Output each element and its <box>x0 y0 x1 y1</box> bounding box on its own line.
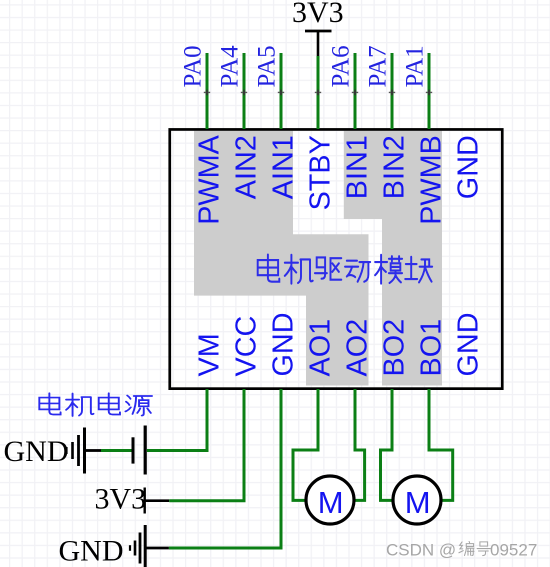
power flag 3V3 top <box>305 31 332 56</box>
svg-text:PA0: PA0 <box>180 45 207 87</box>
battery BT1 <box>133 426 145 475</box>
GND2 stub <box>146 547 169 550</box>
module rectangle U1 <box>170 129 503 388</box>
svg-text:GND: GND <box>268 313 300 377</box>
svg-text:AIN2: AIN2 <box>231 135 263 199</box>
wire PA5 <box>280 53 283 129</box>
svg-text:PA1: PA1 <box>402 45 429 87</box>
svg-text:GND: GND <box>453 313 485 377</box>
svg-text:09527: 09527 <box>490 541 537 560</box>
wire battery to VM <box>147 389 207 451</box>
wire GND2 to GND pin <box>169 389 281 548</box>
svg-text:GND: GND <box>453 135 485 199</box>
motor M2 <box>393 476 441 524</box>
svg-text:3V3: 3V3 <box>95 483 147 516</box>
wire PA7 <box>391 53 394 129</box>
svg-text:PA4: PA4 <box>217 45 244 88</box>
svg-text:BO2: BO2 <box>379 319 411 377</box>
svg-text:M: M <box>318 485 344 520</box>
svg-text:GND: GND <box>59 535 124 567</box>
svg-text:GND: GND <box>4 435 69 468</box>
svg-text:VM: VM <box>194 333 226 376</box>
wire 3V3 to VCC <box>169 389 244 501</box>
svg-text:PWMB: PWMB <box>416 135 448 225</box>
svg-text:BIN2: BIN2 <box>379 135 411 199</box>
svg-text:3V3: 3V3 <box>292 0 344 29</box>
power flag 3V3 bottom <box>145 488 170 514</box>
wire BO1 to motor M2 right <box>429 389 453 500</box>
wire PA1 <box>428 53 431 129</box>
wire PA6 <box>354 53 357 129</box>
svg-text:AO1: AO1 <box>305 319 337 377</box>
symbol body highlight (gray polygon right: BIN1/BIN2/PWMB + BO2/BO1) <box>344 131 442 386</box>
svg-text:PA6: PA6 <box>328 45 355 87</box>
svg-text:AIN1: AIN1 <box>268 135 300 199</box>
svg-text:M: M <box>405 485 431 520</box>
pin junction crosses <box>204 91 432 93</box>
wire AO2 to motor M1 right <box>355 389 365 500</box>
GND1 stub <box>86 449 102 452</box>
wire BO2 to motor M2 left <box>381 389 393 500</box>
watermark CSDN <box>386 541 537 560</box>
svg-text:VCC: VCC <box>231 316 263 377</box>
svg-text:CSDN @: CSDN @ <box>386 541 456 560</box>
module name 电机驱动模块 <box>258 255 433 284</box>
wire STBY/3V3 <box>317 56 320 129</box>
wire GND1 to battery <box>101 449 132 452</box>
wire AO1 to motor M1 left <box>293 389 318 500</box>
svg-text:PA7: PA7 <box>365 45 392 87</box>
svg-text:AO2: AO2 <box>342 319 374 377</box>
symbol body highlight (gray polygon left: PWMA/AIN2/AIN1 + center name + AO1/AO2) <box>194 131 369 386</box>
motor M1 <box>306 476 354 524</box>
svg-text:BIN1: BIN1 <box>342 135 374 199</box>
svg-text:PWMA: PWMA <box>194 134 226 224</box>
wire PA0 <box>206 53 209 129</box>
svg-text:BO1: BO1 <box>416 319 448 377</box>
svg-text:PA5: PA5 <box>254 45 281 87</box>
svg-text:STBY: STBY <box>305 135 337 210</box>
wire PA4 <box>243 53 246 129</box>
ground symbol GND1 <box>67 428 85 474</box>
ground symbol GND2 <box>130 525 145 567</box>
label 电机电源 <box>39 393 152 416</box>
